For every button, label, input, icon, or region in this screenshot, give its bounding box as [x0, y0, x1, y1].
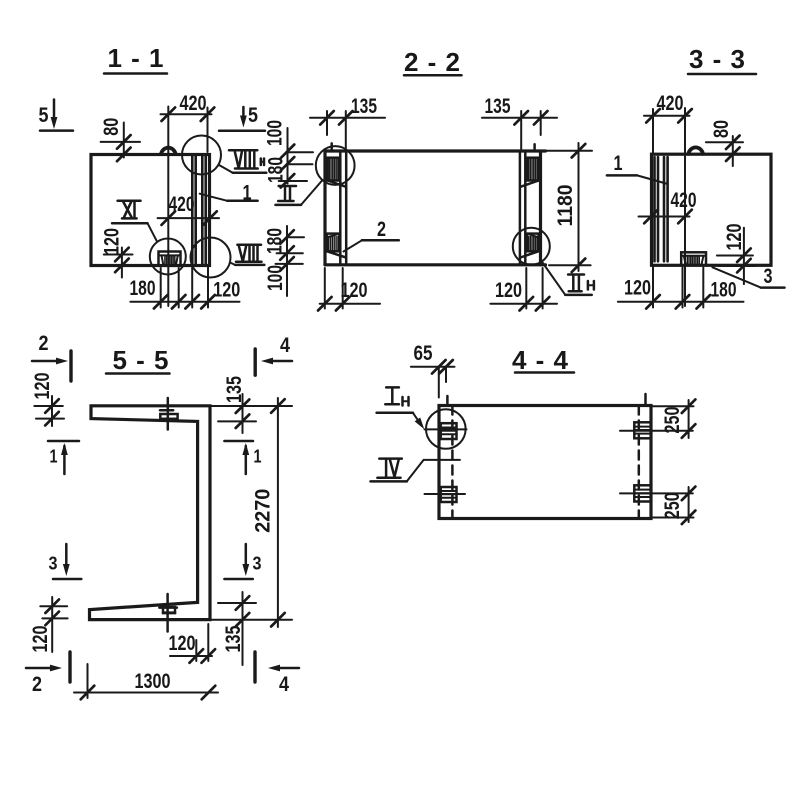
- transverse bar mark top flange: [160, 398, 178, 430]
- detail circle left top 4-4: [426, 409, 466, 449]
- beam body outline 3-3: [652, 154, 772, 265]
- dimension 65 top 4-4: [411, 342, 455, 398]
- dimension 2270 right 5-5: [210, 398, 292, 627]
- lifting loop 3-3: [688, 147, 703, 153]
- svg-text:120: 120: [31, 373, 54, 400]
- svg-text:120: 120: [213, 279, 240, 302]
- dimension 120 right 3-3: [717, 224, 755, 285]
- centerline left bottom 4-4: [425, 493, 466, 495]
- svg-text:5 - 5: 5 - 5: [113, 345, 169, 375]
- section title 4-4: [512, 345, 574, 375]
- svg-text:250: 250: [661, 492, 684, 519]
- label XI with leader: [112, 201, 157, 242]
- dimension 120 bottom left 1-1: [101, 228, 133, 278]
- level marker 1 right: [224, 441, 261, 474]
- label I-n with leader 4-4: [377, 387, 427, 431]
- cut marker 5 left: [39, 100, 74, 131]
- dimension 420 top 3-3: [644, 92, 692, 154]
- rebar bars pos.1 (3-3): [655, 157, 668, 261]
- detail circle top right 1-1: [182, 136, 221, 175]
- svg-text:250: 250: [661, 407, 684, 434]
- svg-text:120: 120: [29, 626, 52, 653]
- svg-text:100: 100: [263, 120, 286, 146]
- section title 1-1: [104, 43, 167, 74]
- label 1 with leader 3-3: [607, 152, 666, 184]
- cut marker 2 bottom left: [26, 652, 70, 696]
- hidden edge left (dashed) 4-4: [451, 406, 454, 519]
- dimension 420 middle 1-1: [158, 193, 219, 225]
- svg-text:420: 420: [657, 92, 684, 115]
- detail circle top left 2-2: [316, 146, 355, 185]
- svg-text:5: 5: [248, 104, 258, 127]
- splice sleeve left bottom 4-4: [441, 487, 457, 502]
- svg-text:3: 3: [764, 265, 773, 288]
- dimension 120 top left 5-5: [31, 373, 64, 427]
- axis line through loop 3-3: [684, 108, 686, 306]
- dimension 420 middle 3-3: [639, 189, 697, 223]
- slab bottom edge 2-2: [325, 263, 546, 266]
- svg-text:135: 135: [485, 95, 511, 118]
- dimension 135 right 2-2: [482, 95, 557, 150]
- svg-text:3: 3: [253, 554, 262, 574]
- dimension 1180 right 2-2: [546, 143, 592, 272]
- beam body outline 1-1: [91, 155, 210, 266]
- svg-text:3: 3: [49, 554, 58, 574]
- svg-text:2: 2: [39, 332, 49, 355]
- svg-text:1: 1: [50, 447, 58, 467]
- dimension 120 bottom right 2-2: [490, 268, 557, 311]
- svg-text:65: 65: [414, 342, 433, 365]
- bottom dimensions 180 and 120 (1-1): [130, 267, 241, 309]
- splice sleeve left top 4-4: [441, 423, 457, 439]
- detail circle XI 1-1: [150, 239, 186, 275]
- dimension 120 bottom left 2-2: [318, 268, 380, 311]
- dimension 80 top left: [100, 118, 140, 162]
- dimension 135 top right 5-5: [218, 376, 256, 433]
- cut marker 4 top right: [255, 334, 292, 375]
- label VIII-n upper with leader: [219, 150, 266, 172]
- lifting loop 1-1: [161, 148, 176, 154]
- dimension 120 bottom left 5-5: [29, 597, 68, 653]
- svg-text:1: 1: [254, 447, 262, 467]
- cut marker 5 right: [219, 104, 265, 131]
- dimension chain 100/180 upper right 1-1: [263, 120, 313, 188]
- transverse bar mark bottom flange: [159, 594, 177, 632]
- svg-text:2: 2: [32, 673, 42, 696]
- svg-text:120: 120: [101, 228, 124, 255]
- level marker 1 left: [48, 441, 79, 474]
- svg-text:180: 180: [265, 157, 288, 183]
- centerline right bottom 4-4: [620, 492, 693, 494]
- svg-text:180: 180: [711, 279, 737, 302]
- label II-n with leader 2-2: [542, 262, 594, 295]
- splice sleeve right top 4-4: [634, 422, 651, 438]
- bottom dimensions 120 and 180 (3-3): [618, 267, 744, 309]
- detail circle bottom right 1-1: [191, 238, 231, 278]
- rebar bars pos.1 (1-1): [192, 155, 205, 265]
- dimension 1300 bottom 5-5: [74, 664, 218, 699]
- centerline left top 4-4: [425, 428, 467, 430]
- section title 3-3: [688, 44, 756, 74]
- svg-text:120: 120: [495, 279, 522, 302]
- svg-text:180: 180: [130, 277, 156, 300]
- svg-text:80: 80: [100, 118, 123, 136]
- embedded plate XI 1-1: [159, 252, 181, 266]
- right end rib 2-2: [520, 144, 541, 265]
- svg-text:120: 120: [723, 224, 746, 251]
- splice sleeve right bottom 4-4: [634, 485, 651, 501]
- svg-text:2270: 2270: [252, 489, 275, 533]
- svg-text:120: 120: [341, 279, 368, 302]
- slab outline 4-4: [439, 406, 651, 519]
- label VIII lower with leader: [230, 245, 264, 265]
- level marker 3 right: [224, 544, 261, 579]
- bar stub top left 4-4: [446, 396, 449, 406]
- svg-text:5: 5: [39, 104, 49, 127]
- dimension 120 bottom middle 5-5: [169, 624, 216, 663]
- cut marker 2 top left: [32, 332, 71, 381]
- bar stub top right 4-4: [644, 394, 647, 406]
- svg-text:1300: 1300: [135, 670, 171, 693]
- label 3 with leader 3-3: [712, 265, 784, 288]
- dimension 80 top right 3-3: [706, 120, 743, 166]
- section title 5-5: [106, 345, 170, 375]
- slab top edge 2-2: [325, 149, 546, 152]
- embedded plate 3-3: [681, 252, 706, 265]
- svg-text:4 - 4: 4 - 4: [512, 345, 569, 375]
- label IV with leader 4-4: [371, 459, 460, 482]
- label 2 with leader: [344, 218, 399, 252]
- section title 2-2: [404, 47, 462, 77]
- svg-text:420: 420: [180, 92, 207, 115]
- svg-text:3 - 3: 3 - 3: [689, 44, 745, 74]
- dimension 135 left 2-2: [310, 95, 385, 150]
- level marker 3 left: [49, 544, 82, 579]
- label II with leader to 2-2: [276, 180, 323, 205]
- svg-text:120: 120: [624, 277, 651, 300]
- svg-text:135: 135: [351, 95, 377, 118]
- hidden edge right (dashed) 4-4: [638, 406, 641, 519]
- dimension 135 bottom right 5-5: [218, 592, 256, 665]
- svg-text:2 - 2: 2 - 2: [404, 47, 460, 77]
- cut marker 4 bottom right: [255, 652, 299, 696]
- svg-text:420: 420: [671, 189, 697, 212]
- svg-text:1: 1: [614, 152, 623, 175]
- svg-text:4: 4: [280, 334, 290, 357]
- detail circle bottom right 2-2: [513, 228, 550, 265]
- svg-text:120: 120: [169, 632, 196, 655]
- dimension 250 right top 4-4: [651, 399, 695, 438]
- svg-text:1 - 1: 1 - 1: [108, 43, 164, 73]
- label 1 with leader (1-1): [200, 182, 258, 205]
- dimension chain 180/100 lower right 1-1: [263, 226, 304, 296]
- svg-text:1180: 1180: [554, 185, 577, 227]
- dimension 420 top: [161, 92, 215, 152]
- left end rib 2-2: [325, 143, 346, 264]
- channel outline 5-5: [90, 406, 211, 620]
- dimension 250 right bottom 4-4: [651, 487, 695, 524]
- axis line through loop and plate: [167, 107, 169, 307]
- svg-text:4: 4: [279, 673, 289, 696]
- svg-text:80: 80: [710, 120, 733, 138]
- svg-text:2: 2: [377, 218, 386, 241]
- centerline right top 4-4: [620, 430, 693, 432]
